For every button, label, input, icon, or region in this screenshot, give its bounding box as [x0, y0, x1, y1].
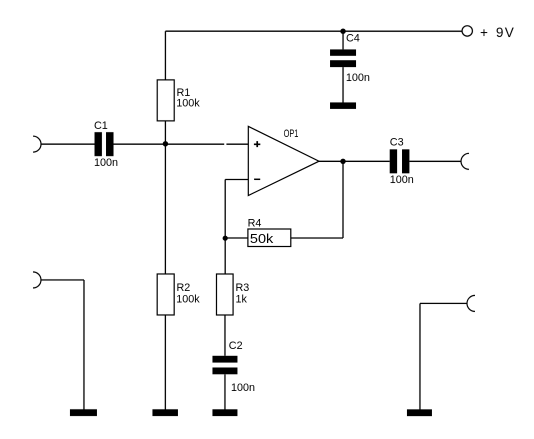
svg-text:1k: 1k — [235, 293, 247, 305]
svg-text:R3: R3 — [235, 282, 249, 294]
svg-text:OP1: OP1 — [284, 128, 299, 140]
svg-text:R4: R4 — [248, 217, 262, 229]
svg-text:100n: 100n — [390, 174, 414, 186]
svg-text:100n: 100n — [231, 382, 255, 394]
svg-text:C4: C4 — [346, 33, 360, 45]
svg-text:100k: 100k — [176, 97, 200, 109]
svg-text:R2: R2 — [176, 282, 190, 294]
svg-text:C3: C3 — [390, 137, 404, 149]
svg-text:+ 9V: + 9V — [480, 25, 515, 40]
svg-text:50k: 50k — [250, 232, 274, 246]
svg-text:100k: 100k — [176, 293, 200, 305]
svg-text:100n: 100n — [346, 72, 370, 84]
svg-text:C2: C2 — [229, 340, 243, 352]
svg-text:C1: C1 — [94, 120, 108, 132]
svg-text:100n: 100n — [94, 157, 118, 169]
